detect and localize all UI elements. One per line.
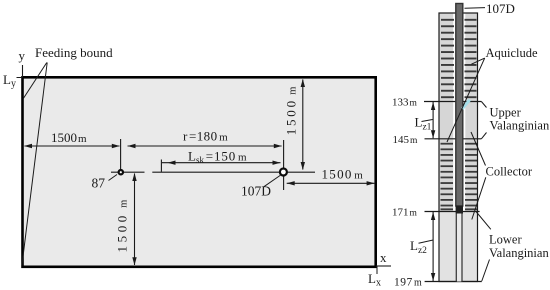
197m bottom line [425,281,482,283]
lower valanginian leader down [482,260,490,282]
dim 1500m bottom vertical : line [134,174,136,266]
well 107D centerline right [287,171,315,173]
casing shoe [456,206,463,214]
dim Lsk=150m : left arrow [168,161,176,165]
svg-text:Valanginian: Valanginian [490,119,550,133]
svg-text:Upper: Upper [490,106,522,120]
svg-text:Aquiclude: Aquiclude [486,46,539,60]
svg-text:r=180m: r=180m [183,129,228,144]
well 87 dot [119,170,123,174]
plan-view domain rectangle [23,77,376,266]
svg-text:Feeding bound: Feeding bound [35,45,113,60]
aquiclude long leader [447,58,485,142]
x axis tick [376,266,378,274]
well 87 centerline [111,171,145,173]
Lz2 dimension arrow [432,212,434,281]
svg-text:107D: 107D [486,1,515,16]
dim r=180m : right arrow [274,144,282,148]
145m boundary line [425,138,482,140]
casing pipe 107D [456,4,463,207]
dim r=180m : left arrow [128,144,136,148]
dim 1500m right : line [287,182,375,184]
column right strip fill [465,13,477,212]
lower valanginian leader up [476,212,491,230]
dim Lsk=150m : left tick [160,160,162,172]
aquiclude short leader [471,58,484,64]
hatch zone A left strip [441,20,454,97]
svg-text:87: 87 [92,176,106,191]
hatch zone B right strip [465,144,477,210]
collector leader down [472,177,486,219]
column outline [439,13,478,282]
svg-text:Valanginian: Valanginian [489,246,549,260]
Lz1 overline [422,120,433,122]
well 107D leader [263,175,281,187]
dim Lsk=150m : right arrow [273,161,281,165]
horizontal borehole line [152,171,283,173]
feeding bound leader short [23,63,47,100]
svg-text:107D: 107D [241,184,271,199]
svg-text:171m: 171m [392,206,418,218]
dim 1500m left : line [25,145,120,147]
145m hook to Upper Valanginian [481,133,486,139]
svg-text:145m: 145m [393,134,419,146]
171m boundary line [425,211,480,213]
well 107D circle [280,169,287,176]
Ly tick [17,77,23,79]
dim 1500m top-right vertical : bottom arrow [301,162,305,170]
svg-text:133m: 133m [392,97,418,109]
133m hook to Upper Valanginian [481,102,486,108]
y axis [22,65,24,77]
dim 1500m left : left arrow [24,144,32,148]
dim Lsk=150m : line [162,162,281,164]
x axis [376,265,391,267]
well 87 leader [109,175,118,181]
dim 1500m bottom vertical : top arrow [132,173,136,181]
tick at well 87 [120,139,122,171]
dim 1500m left : right arrow [112,144,120,148]
svg-text:197m: 197m [394,276,422,288]
dim 1500m right : left arrow [287,181,295,185]
Lz1 dimension arrow [432,102,434,138]
107D top leader [465,7,486,10]
aquiclude long leader cyan segment [462,100,470,109]
column lower section fill [439,212,478,282]
collector leader up [471,132,486,166]
Lz2 overline [419,240,434,243]
hatch zone A right strip [465,20,477,97]
svg-text:1500m: 1500m [322,166,364,181]
svg-text:Lower: Lower [489,233,522,247]
open hole right line [461,214,463,282]
feeding bound leader long [22,63,47,267]
dim 1500m right : right arrow [367,181,375,185]
tick at well 107D [283,140,285,190]
hatch zone B left strip [441,144,454,210]
dim 1500m top-right vertical : top arrow [301,79,305,87]
dim r=180m : line [128,145,282,147]
open hole left line [455,214,457,282]
column left strip fill [439,13,453,212]
svg-text:Collector: Collector [486,165,533,179]
dim 1500m bottom vertical : bottom arrow [132,257,136,265]
svg-text:x: x [380,250,387,265]
svg-text:1500m: 1500m [51,130,87,145]
133m boundary line [424,101,481,103]
svg-text:y: y [19,48,26,63]
open hole interior [457,214,461,282]
dim 1500m top-right vertical : line [302,80,304,170]
